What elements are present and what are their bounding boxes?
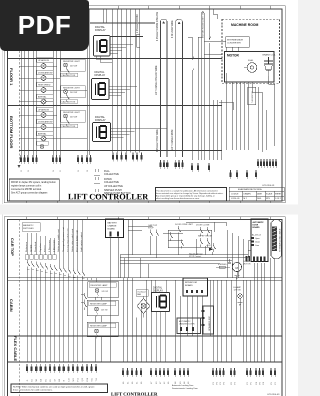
svg-text:I9: I9 — [64, 380, 66, 382]
svg-text:X7: X7 — [160, 382, 162, 384]
svg-text:UP COLLECTIVE: UP COLLECTIVE — [104, 185, 123, 188]
svg-text:21: 21 — [60, 170, 62, 172]
svg-text:X8: X8 — [188, 382, 190, 384]
svg-text:FROM: In duplex RV system, lan: FROM: In duplex RV system, landing butto… — [11, 181, 56, 184]
svg-text:24V 2W: 24V 2W — [101, 310, 108, 312]
svg-text:REGISTER LAMP: REGISTER LAMP — [91, 284, 108, 287]
svg-text:Up limit: Up limit — [30, 244, 33, 252]
svg-text:24V 2W: 24V 2W — [70, 92, 77, 94]
svg-text:2 PULLEY ROOM: 2 PULLEY ROOM — [137, 14, 139, 33]
svg-text:K2: K2 — [32, 379, 34, 381]
svg-text:Overspeed governor cont: Overspeed governor cont — [62, 227, 65, 252]
wire: lamp column links — [19, 66, 87, 139]
connector J3 — [77, 155, 92, 164]
label: page1 pin numbers — [21, 170, 89, 172]
svg-text:P6: P6 — [216, 382, 218, 384]
wire: center riser bundle — [53, 9, 90, 155]
wire: intercom leads — [187, 296, 202, 362]
svg-text:DATE: DATE — [257, 193, 263, 196]
svg-text:MOTOR: MOTOR — [243, 264, 251, 266]
switch S3 door limit group — [175, 224, 216, 252]
svg-text:J1: J1 — [27, 380, 29, 382]
label CABIN — [9, 299, 14, 312]
label: pin labels row — [27, 378, 277, 385]
brake coil L1 — [263, 54, 277, 77]
junction box A6 — [248, 87, 256, 105]
svg-text:AL-DOL-S: AL-DOL-S — [252, 234, 261, 237]
svg-text:Automatic Landing Door: Automatic Landing Door — [172, 384, 194, 387]
svg-text:DOOR OPEN LIMIT: DOOR OPEN LIMIT — [175, 224, 194, 226]
svg-text:X4: X4 — [175, 382, 177, 384]
speaker LS1 box — [202, 306, 214, 334]
connector J2 — [52, 155, 61, 164]
connector J17 — [230, 368, 236, 377]
svg-text:Light curtain contact: Light curtain contact — [80, 232, 83, 252]
board A5 door operator terminal — [177, 318, 201, 334]
svg-text:LIFT CONTROLLER: LIFT CONTROLLER — [68, 192, 149, 201]
svg-text:29: 29 — [78, 170, 80, 172]
wire: motor leads — [204, 47, 275, 152]
connector J4 display bus — [112, 153, 127, 162]
svg-text:P12: P12 — [78, 378, 80, 381]
svg-text:4 W LOAD WIRE: 4 W LOAD WIRE — [171, 20, 174, 38]
svg-text:Down limit: Down limit — [34, 242, 37, 252]
svg-text:P0: P0 — [259, 382, 261, 384]
svg-text:D4: D4 — [41, 379, 43, 381]
legend: system types — [94, 169, 131, 195]
svg-text:Safety gear switch cont: Safety gear switch cont — [57, 229, 60, 252]
connector J10 brake terminals — [257, 159, 277, 168]
svg-text:MAGNETIC: MAGNETIC — [23, 224, 34, 227]
svg-text:X0: X0 — [180, 382, 182, 384]
connector J19 — [255, 368, 264, 377]
svg-text:CALL BUTTON: CALL BUTTON — [62, 125, 76, 128]
label CAR TOP — [10, 238, 15, 256]
svg-text:X6: X6 — [123, 382, 125, 384]
svg-text:Door open button cont: Door open button cont — [76, 230, 79, 252]
svg-text:REGISTER LIGHT: REGISTER LIGHT — [63, 61, 80, 63]
wire: right risers — [188, 9, 217, 160]
wire: main vertical bus — [103, 9, 140, 153]
svg-text:ARRIVAL: ARRIVAL — [38, 95, 47, 98]
svg-text:X1: X1 — [136, 382, 138, 384]
svg-text:P3: P3 — [213, 382, 215, 384]
svg-text:24V 2W: 24V 2W — [70, 66, 77, 68]
label FLOOR 1 — [9, 68, 14, 86]
svg-text:DRAWN: DRAWN — [244, 193, 252, 196]
svg-text:X1: X1 — [127, 382, 129, 384]
display U3 digital display bottom floor — [93, 115, 111, 142]
svg-text:CABIN: CABIN — [9, 299, 14, 312]
node: supply arrow — [206, 245, 214, 251]
svg-text:29: 29 — [28, 170, 30, 172]
svg-text:INTERCOM: INTERCOM — [185, 282, 197, 284]
cable W3 narrow loop — [201, 10, 204, 160]
register light circuit K2 floor1 lower — [61, 86, 86, 104]
lamp HL7 emergency lamp — [234, 286, 243, 305]
display U1 digital display floor2 — [94, 25, 111, 56]
resistor R1 with label — [137, 14, 140, 47]
bus: page2 lower horizontal bus A — [8, 335, 283, 337]
svg-text:COLLECTIVE: COLLECTIVE — [104, 173, 119, 176]
svg-text:P3: P3 — [220, 382, 222, 384]
svg-text:Close: Close — [255, 242, 260, 244]
svg-text:X6: X6 — [141, 382, 143, 384]
converter A1 interface converter — [205, 37, 249, 48]
bus: page2 lower horizontal bus B — [8, 361, 283, 363]
svg-text:Open: Open — [255, 238, 260, 240]
wire: display U1 fanout — [96, 44, 133, 62]
svg-text:UP ARROW: UP ARROW — [38, 108, 49, 111]
node: page2 car boundary dashed line — [18, 220, 20, 396]
svg-text:DOWN ARROW: DOWN ARROW — [38, 120, 53, 123]
wire: car top stop loop — [163, 230, 212, 248]
svg-text:BRAKE COIL: BRAKE COIL — [263, 54, 277, 57]
PDF badge overlay — [0, 0, 89, 51]
svg-text:effect resulting from these da: effect resulting from these data-lessnes… — [156, 197, 200, 200]
svg-text:CODICE: CODICE — [231, 194, 239, 196]
svg-text:AUTOMATIC: AUTOMATIC — [179, 320, 191, 323]
connector J11 flex cable row — [26, 364, 97, 373]
svg-text:P2: P2 — [247, 382, 249, 384]
fan B1 overload fan — [136, 290, 150, 318]
svg-text:S15: S15 — [91, 378, 93, 381]
svg-text:CALL BUTTON: CALL BUTTON — [62, 100, 76, 103]
connector J15 — [174, 368, 189, 377]
svg-text:P6: P6 — [223, 382, 225, 384]
svg-text:REGISTER LIGHT: REGISTER LIGHT — [63, 88, 80, 90]
svg-text:M11: M11 — [73, 378, 75, 382]
motor M1 — [225, 52, 275, 83]
svg-text:X6: X6 — [168, 382, 170, 384]
svg-text:Semiautomatic Landing Door: Semiautomatic Landing Door — [172, 387, 198, 390]
wire: power board drops — [111, 220, 153, 363]
connector J18 — [246, 368, 252, 377]
svg-text:P5: P5 — [271, 382, 273, 384]
title: LIFT CONTROLLER — [68, 192, 149, 201]
svg-text:FAN: FAN — [137, 293, 141, 296]
register light circuit K3 bottom floor — [61, 110, 86, 128]
svg-text:BOARD: BOARD — [108, 228, 116, 231]
wire: mid column risers — [95, 258, 274, 362]
page 1 sheet — [0, 0, 298, 205]
svg-text:X4: X4 — [184, 382, 186, 384]
connector J6 cable side — [159, 160, 168, 169]
svg-text:X7: X7 — [151, 382, 153, 384]
wire: door circuit bus — [120, 222, 248, 278]
svg-text:SWITCHES: SWITCHES — [23, 228, 34, 230]
motor M2 door motor with capacitor — [228, 259, 251, 278]
wire: left riser bundle — [21, 9, 37, 155]
svg-text:P0: P0 — [231, 382, 233, 384]
fuse F1 — [216, 264, 230, 268]
connector J16 — [212, 368, 225, 377]
svg-text:Safety edge switch cont: Safety edge switch cont — [71, 229, 74, 252]
svg-text:R14: R14 — [87, 378, 89, 381]
svg-text:X6: X6 — [132, 382, 134, 384]
svg-text:X2: X2 — [164, 382, 166, 384]
svg-text:ST TRAVELLING CABLE: ST TRAVELLING CABLE — [278, 228, 281, 252]
svg-text:CAR TOP: CAR TOP — [148, 224, 158, 227]
svg-text:P4: P4 — [256, 382, 258, 384]
svg-text:Q13: Q13 — [82, 378, 84, 382]
svg-text:P3: P3 — [234, 382, 236, 384]
connector J13 — [150, 368, 165, 377]
wire: display U4 leads — [155, 280, 166, 362]
bus: page2 main horizontal bus — [8, 278, 283, 281]
switch S5 extra contacts — [170, 232, 184, 249]
svg-text:FLEX CABLE: FLEX CABLE — [13, 336, 18, 361]
svg-text:BOARD: BOARD — [185, 284, 193, 287]
lamp HL1 group floor1 indicators — [36, 58, 53, 104]
machine room enclosure — [222, 19, 280, 83]
svg-text:Overload: Overload — [137, 291, 145, 293]
svg-text:NOTES: When mechanical switche: NOTES: When mechanical switches are used… — [13, 386, 95, 389]
connector J1 hall calls — [20, 155, 38, 164]
svg-text:CONVERTER: CONVERTER — [227, 43, 241, 45]
svg-text:SCALE: SCALE — [266, 193, 273, 196]
node: car/hall boundary dashed line — [18, 9, 21, 168]
svg-text:UP ARROW: UP ARROW — [38, 59, 49, 62]
svg-text:6-SPEED: 6-SPEED — [218, 264, 227, 266]
connector J14 — [167, 368, 169, 377]
svg-text:2 Door zone: 2 Door zone — [53, 239, 56, 252]
svg-text:HIGH SPEED: HIGH SPEED — [38, 84, 51, 86]
note: magnetic switch note — [22, 223, 40, 232]
label: switch column names — [25, 227, 83, 252]
title: page2 LIFT CONTROLLER cut — [111, 393, 158, 396]
lamp HL2 group bottom floor indicators — [36, 107, 53, 141]
svg-text:GT-DL-09: GT-DL-09 — [231, 198, 239, 200]
connector J12 — [122, 368, 142, 377]
svg-text:H8: H8 — [59, 379, 61, 381]
svg-text:DOOR CLOSE: DOOR CLOSE — [196, 225, 210, 227]
switch S1 column magnetic switches — [25, 255, 85, 279]
svg-text:ELABORAZIONE TECNICA: ELABORAZIONE TECNICA — [238, 188, 262, 191]
svg-text:DOWN ARROW: DOWN ARROW — [38, 71, 53, 74]
connector J5 — [132, 153, 143, 162]
cable W2 lift cable loop right — [171, 19, 183, 157]
display U2 digital display floor1 — [92, 70, 110, 100]
svg-text:DISPLAY: DISPLAY — [95, 28, 106, 32]
svg-text:P5: P5 — [250, 382, 252, 384]
svg-text:CHARGE: CHARGE — [108, 225, 118, 228]
svg-text:BATTERY: BATTERY — [108, 222, 118, 225]
svg-text:LIFT CONTROLLER: LIFT CONTROLLER — [111, 393, 158, 396]
svg-text:1 OF 2: 1 OF 2 — [275, 198, 281, 200]
label BOTTOM FLOOR — [9, 116, 14, 148]
svg-text:MACHINE ROOM: MACHINE ROOM — [231, 23, 258, 27]
svg-text:M.T.: M.T. — [244, 198, 248, 200]
note: mechanical switch note — [11, 384, 108, 393]
label: drawing number — [262, 185, 275, 187]
svg-text:SHEET: SHEET — [275, 194, 282, 196]
svg-text:FLAG: FLAG — [248, 59, 254, 62]
svg-text:Bottom: Bottom — [43, 245, 46, 252]
svg-text:MOTOR: MOTOR — [227, 54, 240, 58]
svg-text:P2: P2 — [275, 382, 277, 384]
svg-text:E5: E5 — [45, 379, 47, 381]
svg-text:LIFT CABLE 2 BLACK WIRE: LIFT CABLE 2 BLACK WIRE — [155, 65, 158, 95]
svg-text:BOARD: BOARD — [253, 226, 261, 229]
svg-text:Car top stop switch cont: Car top stop switch cont — [66, 228, 69, 252]
board A3 automatic door board — [251, 219, 268, 262]
register light circuit K1 floor1 — [61, 59, 86, 77]
svg-text:connected to MK/HR terminal.: connected to MK/HR terminal. — [11, 188, 42, 191]
svg-text:4 PULLEY FROM 2 BELOW: 4 PULLEY FROM 2 BELOW — [157, 11, 159, 41]
svg-text:24V 2W: 24V 2W — [102, 291, 109, 293]
wire: switch column drops — [27, 220, 96, 362]
connector X1 travelling cable — [271, 220, 282, 259]
svg-text:L10: L10 — [68, 378, 70, 381]
connector J20 — [270, 368, 276, 377]
svg-text:2009: 2009 — [257, 198, 261, 200]
note: wiring note box right — [156, 188, 227, 202]
lamp HL3 hall lantern — [36, 141, 48, 149]
wire: door board leads — [248, 241, 265, 363]
svg-text:SAFETY EDGE: SAFETY EDGE — [198, 235, 213, 238]
svg-text:1 Door zone: 1 Door zone — [48, 239, 51, 252]
label: hatch stop contact — [189, 253, 203, 259]
svg-text:STOP: STOP — [148, 228, 154, 230]
label FLEX CABLE — [13, 336, 18, 361]
page 2 sheet — [0, 215, 298, 396]
connector: door board side pins — [246, 256, 251, 262]
display U4 cab digital display — [152, 287, 170, 312]
svg-text:DISPLAY: DISPLAY — [95, 118, 106, 122]
svg-text:FLOOR 1: FLOOR 1 — [9, 68, 14, 86]
svg-text:4 PULLEY BOX WIRE: 4 PULLEY BOX WIRE — [157, 129, 159, 152]
svg-text:T16: T16 — [96, 378, 98, 381]
svg-text:LIFT CABLE FROM: LIFT CABLE FROM — [171, 130, 174, 150]
svg-text:P4: P4 — [263, 382, 265, 384]
svg-text:N3: N3 — [36, 379, 38, 381]
svg-text:COLLECTIVE: COLLECTIVE — [104, 181, 119, 184]
svg-text:ARRIVAL: ARRIVAL — [38, 132, 47, 135]
wire: display U2 fanout — [109, 86, 137, 95]
note: duplex note box — [9, 179, 59, 201]
switch S4 car light switches — [81, 293, 87, 310]
svg-text:Reference: Reference — [25, 241, 28, 252]
lamp HL6 register lamp box c — [87, 322, 118, 338]
svg-text:LANDING DOOR: LANDING DOOR — [179, 323, 195, 326]
wire: display U3 fanout — [111, 128, 168, 137]
svg-text:DISPLAY: DISPLAY — [95, 73, 106, 77]
svg-text:GT14700.09: GT14700.09 — [262, 185, 275, 187]
titleblock: drawing title block — [229, 187, 284, 201]
wire: section separator buses — [8, 23, 223, 151]
lamp HL5 register lamp box b — [87, 300, 118, 316]
svg-text:24: 24 — [53, 170, 55, 172]
svg-text:CALL BUTTON: CALL BUTTON — [62, 74, 76, 77]
svg-text:+8.8V: +8.8V — [206, 245, 212, 247]
svg-text:REGISTER LAMP: REGISTER LAMP — [90, 325, 107, 328]
switch S2 car top stop — [148, 224, 159, 239]
board A4 intercom board — [183, 278, 208, 296]
svg-text:these connections for cable co: these connections for cable connections. — [13, 389, 53, 392]
svg-text:X3: X3 — [156, 382, 158, 384]
svg-text:F6: F6 — [50, 379, 52, 381]
svg-text:REGISTER LIGHT: REGISTER LIGHT — [63, 112, 80, 114]
svg-text:Com: Com — [255, 245, 259, 247]
svg-text:28: 28 — [87, 170, 89, 172]
svg-text:THERMISTOR: THERMISTOR — [252, 90, 254, 103]
svg-text:CAR TOP: CAR TOP — [10, 238, 15, 256]
cable W1 lift cable loop left — [157, 11, 167, 157]
label: cable note — [155, 65, 158, 95]
svg-text:12V 5W: 12V 5W — [234, 290, 241, 292]
connector J9 motor terminals — [229, 170, 257, 179]
connector J7 — [175, 160, 184, 169]
board A2 power charge board — [106, 219, 124, 238]
svg-text:G7: G7 — [55, 379, 57, 382]
svg-text:24V 2W: 24V 2W — [70, 117, 77, 119]
svg-text:BOTTOM FLOOR: BOTTOM FLOOR — [9, 116, 14, 148]
label: automatic landing door note — [172, 384, 198, 390]
svg-text:REGISTER LAMP: REGISTER LAMP — [90, 303, 107, 306]
svg-text:22: 22 — [21, 170, 23, 172]
connector J8 — [191, 163, 210, 172]
svg-text:E-LAMP: E-LAMP — [234, 286, 242, 289]
lamp HL4 register lamp box a — [88, 282, 119, 298]
svg-text:register lamps common coil is: register lamps common coil is — [11, 185, 42, 188]
wire: machine room drops — [213, 73, 266, 160]
label: page2 drawing number — [267, 394, 280, 396]
svg-text:See ACT group connection diagr: See ACT group connection diagram — [11, 192, 47, 195]
svg-text:INTERMEDIATE: INTERMEDIATE — [227, 39, 244, 42]
